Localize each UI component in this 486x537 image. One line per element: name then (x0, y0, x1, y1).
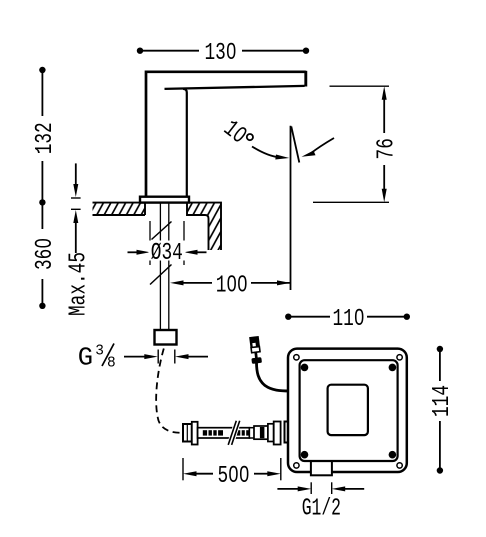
svg-text:132: 132 (32, 122, 59, 154)
svg-text:3: 3 (95, 344, 104, 360)
svg-text:G: G (78, 344, 93, 373)
svg-text:8: 8 (107, 356, 116, 372)
svg-text:Max.45: Max.45 (65, 252, 92, 316)
svg-text:76: 76 (373, 138, 400, 159)
svg-text:G1/2: G1/2 (302, 496, 341, 523)
svg-text:114: 114 (429, 385, 456, 417)
svg-text:Ø34: Ø34 (151, 240, 183, 267)
